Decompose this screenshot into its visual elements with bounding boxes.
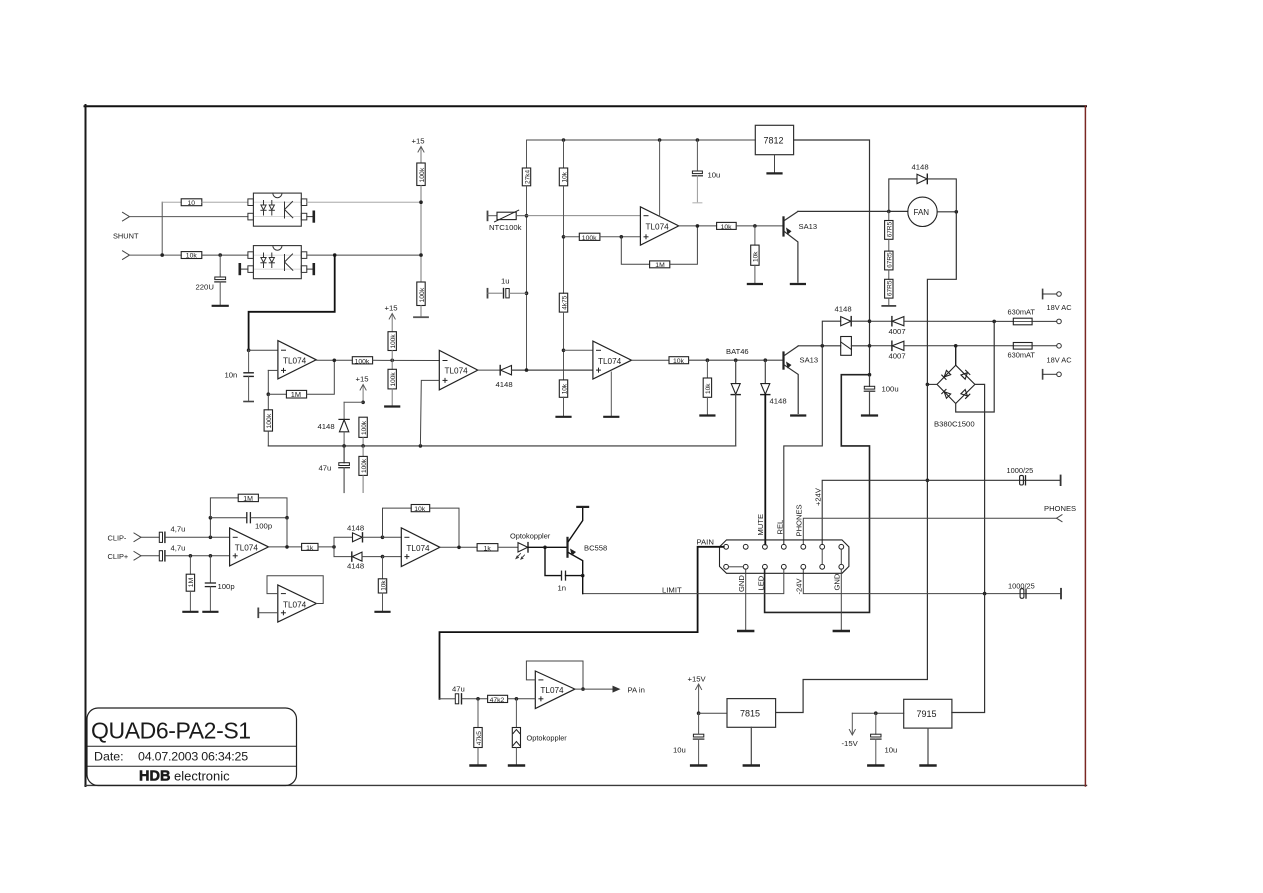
diode 4148 (mute)	[761, 360, 787, 405]
wire input2 to resistor 10k	[130, 254, 182, 256]
terminator opto2 lower left	[240, 264, 248, 274]
svg-text:4k75: 4k75	[561, 295, 568, 309]
wire 100k to U3b	[373, 359, 440, 361]
node junction dot	[476, 697, 480, 701]
wire bridge left to rail	[927, 383, 937, 385]
node junction dot	[209, 516, 213, 520]
svg-text:4148: 4148	[347, 562, 364, 571]
op-amp U4 TL074	[593, 341, 632, 379]
wire to end tick	[420, 306, 422, 318]
node junction dot	[562, 235, 566, 239]
ground bar pin2	[738, 630, 753, 632]
diode 4148 (upper, anode left)	[334, 524, 383, 547]
node junction dot	[562, 138, 566, 142]
wire to 1M	[268, 393, 286, 395]
terminator opto2 lower right	[307, 264, 314, 274]
svg-text:NTC100k: NTC100k	[489, 223, 522, 232]
wire to U3 plus	[600, 236, 641, 238]
capacitor 1000/25 (-24V)	[1008, 582, 1061, 599]
svg-text:1M: 1M	[291, 390, 301, 399]
capacitor 100p (CLIP+ bias)	[205, 556, 234, 612]
terminator U6 plus input	[258, 608, 278, 617]
svg-text:TL074: TL074	[235, 544, 259, 553]
capacitor 4,7u (CLIP+)	[159, 543, 229, 561]
wire Q2 collector to relay	[798, 345, 841, 347]
svg-text:100k: 100k	[582, 235, 597, 242]
ground bar 7815	[744, 764, 759, 766]
resistor 1M (U5 feedback)	[210, 494, 287, 518]
resistor 100k (U2 fb lower)	[264, 394, 273, 446]
node junction dot 220U	[218, 253, 222, 257]
node junction dot	[868, 344, 872, 348]
svg-text:10k: 10k	[705, 383, 712, 394]
node junction dot	[581, 687, 585, 691]
svg-text:18V AC: 18V AC	[1047, 303, 1073, 312]
regulator 7812	[755, 125, 793, 173]
connector pin circles top row	[724, 544, 844, 549]
svg-text:TL074: TL074	[283, 357, 307, 366]
power +15 arrow (x=421)	[412, 137, 425, 164]
wire U3b plus input from long wire	[420, 380, 439, 446]
wire 4007 line 1 left	[870, 320, 892, 322]
wire U3 output	[679, 225, 717, 227]
node junction dot	[658, 138, 662, 142]
svg-text:+15: +15	[356, 375, 369, 384]
wire x=526.5 column	[526, 186, 528, 370]
optocoupler OK2	[248, 246, 307, 279]
transistor Q1 SA13	[784, 211, 818, 282]
node junction dot	[620, 235, 624, 239]
svg-text:BC558: BC558	[584, 544, 607, 553]
wire 7915 output up rail	[952, 594, 985, 713]
resistor 10	[181, 199, 202, 207]
svg-text:10k: 10k	[186, 253, 198, 260]
svg-text:4148: 4148	[770, 397, 787, 406]
node junction dot	[332, 545, 336, 549]
title block	[87, 708, 297, 786]
resistor 10k (U3 out)	[717, 222, 737, 230]
wire long horizontal y=445.9	[268, 445, 735, 447]
wire NTC node to U3 minus	[527, 215, 641, 217]
svg-text:100k: 100k	[361, 420, 368, 435]
svg-text:10k: 10k	[414, 506, 426, 513]
wire U7 output	[440, 546, 477, 548]
terminator opto1 lower right	[307, 212, 314, 222]
node junction dot	[874, 711, 878, 715]
svg-text:QUAD6-PA2-S1: QUAD6-PA2-S1	[91, 718, 251, 744]
resistor 1k (U5 out)	[302, 543, 318, 551]
svg-text:1000/25: 1000/25	[1007, 466, 1034, 475]
wire U3 feedback	[621, 237, 649, 264]
svg-text:10k: 10k	[753, 251, 760, 262]
svg-text:1n: 1n	[558, 584, 567, 593]
wire U6 feedback loop	[267, 576, 323, 604]
connector pin circles bottom row	[724, 564, 844, 569]
resistor 1M feedback U2	[286, 390, 306, 399]
svg-text:1M: 1M	[188, 577, 195, 587]
terminal 18V AC (1)	[1043, 289, 1073, 312]
optocoupler OK1	[248, 193, 307, 226]
svg-text:4,7u: 4,7u	[171, 543, 186, 552]
resistor 27k4	[522, 168, 531, 186]
wire to U7 inputs	[383, 536, 402, 538]
wire vertical input branch	[161, 202, 163, 255]
capacitor 4,7u (CLIP-)	[159, 525, 229, 543]
capacitor 10u (7915 input)	[871, 713, 898, 765]
resistor 1k (to optocoupler LED)	[477, 544, 498, 553]
transistor Q2 SA13	[784, 346, 819, 413]
svg-text:100u: 100u	[882, 385, 899, 394]
wire +12 rail	[527, 139, 756, 141]
wire 47k2 to U8 plus	[508, 698, 536, 700]
ground bar 10u	[868, 764, 883, 766]
op-amp U8 TL074	[535, 671, 575, 709]
svg-text:CLIP-: CLIP-	[108, 534, 127, 543]
connector J1	[720, 540, 849, 573]
svg-text:10n: 10n	[225, 371, 238, 380]
svg-text:1M: 1M	[243, 496, 253, 503]
wire to Q1 base	[736, 225, 783, 227]
wire feedback vertical	[267, 370, 269, 394]
node junction dot NTC	[525, 214, 529, 218]
capacitor 10u (rail)	[692, 140, 720, 203]
output arrow PHONES	[1057, 515, 1063, 522]
svg-text:BAT46: BAT46	[726, 347, 749, 356]
node junction dot	[381, 555, 385, 559]
svg-text:630mAT: 630mAT	[1008, 308, 1036, 317]
resistor 67R5 (3)	[885, 270, 894, 306]
LED Optokoppler (emitter diode)	[510, 532, 551, 560]
svg-text:47k2: 47k2	[490, 697, 505, 704]
svg-text:100p: 100p	[255, 522, 272, 531]
ground 220U	[213, 305, 228, 307]
resistor 10k (below U4 minus)	[559, 380, 568, 417]
resistor 67R5 (2)	[885, 239, 894, 270]
thermistor NTC100k	[488, 210, 527, 232]
svg-text:7915: 7915	[917, 709, 937, 719]
motor FAN	[908, 197, 937, 226]
resistor 1M (U3 feedback)	[650, 261, 670, 269]
wire CLIP- input	[141, 536, 159, 538]
node junction dot	[381, 536, 385, 540]
resistor 10k (U4 out)	[669, 357, 689, 365]
wire 100k column	[420, 186, 422, 283]
svg-text:LIMIT: LIMIT	[662, 586, 682, 595]
node junction dot	[419, 444, 423, 448]
node junction dot	[419, 200, 423, 204]
resistor 10k	[181, 252, 202, 260]
capacitor 1n	[545, 547, 583, 592]
power +15 arrow (x=363)	[356, 375, 369, 403]
svg-text:1u: 1u	[501, 277, 510, 286]
optocoupler (photoresistor side)	[512, 699, 567, 766]
svg-text:4007: 4007	[889, 352, 906, 361]
wire opto2 out	[307, 254, 421, 256]
wire to 7915	[852, 712, 903, 714]
resistor 100k (x=363 below wire)	[359, 446, 368, 493]
wire 4007-2 to fuse	[904, 345, 1013, 347]
node junction dot	[333, 359, 337, 363]
resistor 4k75	[559, 293, 568, 312]
diode 4007 (1)	[889, 317, 906, 336]
svg-text:TL074: TL074	[406, 544, 430, 553]
resistor 10k (Q1 base)	[751, 226, 760, 284]
svg-text:10u: 10u	[673, 746, 686, 755]
svg-text:67R5: 67R5	[887, 221, 894, 237]
svg-text:TL074: TL074	[646, 223, 670, 232]
capacitor 10n	[225, 350, 254, 401]
node junction dot	[697, 711, 701, 715]
wire 100k row	[564, 236, 580, 238]
wire diode to U4 plus	[512, 369, 593, 371]
resistor 100k (U3 plus)	[579, 233, 600, 242]
wire U2 plus input	[268, 369, 278, 371]
regulator 7815	[727, 699, 776, 766]
terminator bar	[414, 316, 428, 318]
capacitor 47u (U8 input)	[440, 685, 488, 704]
wire PHONES line	[803, 518, 1056, 544]
svg-text:10k: 10k	[561, 383, 568, 394]
svg-text:100k: 100k	[390, 334, 397, 349]
wire FAN right	[937, 211, 956, 213]
wire to ground	[391, 389, 393, 406]
terminal 18V AC (2)	[1043, 356, 1073, 379]
wire U8 feedback loop	[526, 661, 583, 689]
wire U4 minus input	[564, 349, 593, 351]
svg-text:100k: 100k	[419, 287, 426, 302]
wire pin1-pin2 bottom link	[729, 566, 744, 568]
svg-text:220U: 220U	[196, 283, 214, 292]
svg-text:Date:: Date:	[94, 750, 124, 764]
ground bar 47k5	[471, 764, 486, 766]
svg-text:47u: 47u	[452, 685, 465, 694]
wire pin7 column link	[840, 549, 842, 564]
node junction dot	[887, 210, 891, 214]
node junction dot	[706, 358, 710, 362]
node junction dot	[992, 320, 996, 324]
node junction dot	[457, 546, 461, 550]
diode 4148 (vertical, left cluster)	[318, 402, 350, 446]
resistor 100k (x=363 above wire)	[359, 417, 368, 446]
svg-text:4007: 4007	[889, 327, 906, 336]
resistor 47k5	[474, 699, 483, 766]
wire pin6 column link	[821, 549, 823, 564]
wire 4007-1 to fuse	[904, 320, 1013, 322]
resistor 10k (U7 feedback)	[383, 505, 460, 548]
svg-text:PAIN: PAIN	[697, 538, 714, 547]
node junction dot	[983, 592, 987, 596]
wire U4 ground stub	[610, 372, 612, 417]
node junction dot	[581, 574, 585, 578]
svg-text:GND: GND	[833, 573, 842, 590]
border frame right	[1084, 106, 1086, 786]
node junction dot	[734, 358, 738, 362]
svg-text:+24V: +24V	[814, 487, 823, 506]
svg-text:4148: 4148	[347, 524, 364, 533]
node junction dot	[926, 383, 930, 387]
wire LIMIT line	[583, 569, 784, 593]
wire 1k to LED	[498, 546, 518, 548]
ground bar Q1 emitter	[791, 283, 805, 285]
power +15 arrow (x=392)	[385, 304, 398, 332]
wire x=563.5 column	[563, 186, 565, 293]
svg-text:+15: +15	[412, 137, 425, 146]
svg-text:10u: 10u	[885, 746, 898, 755]
svg-text:67R5: 67R5	[887, 280, 894, 296]
svg-text:GND: GND	[737, 575, 746, 592]
svg-text:+15V: +15V	[688, 675, 707, 684]
resistor 10k (U7 plus bias)	[378, 557, 387, 612]
svg-text:-15V: -15V	[842, 739, 859, 748]
wire Q1 collector to FAN	[798, 210, 908, 212]
svg-text:100p: 100p	[218, 582, 235, 591]
op-amp U3b TL074	[439, 350, 478, 390]
svg-text:10: 10	[188, 200, 196, 207]
resistor 100k (top of x=421 column)	[417, 163, 426, 186]
node junction dot	[821, 344, 825, 348]
node junction dot	[390, 359, 394, 363]
wire relay node down	[869, 346, 871, 375]
wire U5 fb vertical	[209, 518, 211, 538]
resistor 67R5 (1)	[885, 211, 894, 239]
capacitor 220U	[196, 255, 226, 305]
wire x=526.5 column top	[526, 140, 528, 168]
node junction dot	[285, 516, 289, 520]
wire to U2 minus	[249, 349, 278, 351]
svg-text:27k4: 27k4	[524, 170, 531, 184]
diode 4148 (relay bypass)	[822, 305, 869, 346]
transistor Q3 BC558	[568, 507, 608, 576]
svg-text:4148: 4148	[318, 422, 335, 431]
node junction dot	[955, 210, 959, 214]
ground bar	[376, 611, 390, 613]
node junction dot	[361, 444, 365, 448]
svg-text:4148: 4148	[496, 380, 513, 389]
svg-text:TL074: TL074	[445, 367, 469, 376]
ground bar	[748, 283, 762, 285]
node junction dot	[285, 545, 289, 549]
node junction dot	[696, 224, 700, 228]
svg-text:100k: 100k	[266, 413, 273, 428]
svg-text:100k: 100k	[419, 167, 426, 182]
wire resistor 10 to opto1	[202, 201, 248, 203]
diode 4007 (2)	[889, 341, 906, 360]
svg-text:4,7u: 4,7u	[171, 525, 186, 534]
node junction dot	[926, 479, 930, 483]
ground bar	[203, 611, 217, 613]
svg-text:+15: +15	[385, 304, 398, 313]
input terminal arrow 1	[123, 212, 130, 221]
node junction dot U2 minus input	[247, 348, 251, 352]
wire +24V line	[822, 480, 1059, 544]
wire PAIN to U8 input	[440, 547, 724, 699]
wire link to 4148	[344, 401, 363, 403]
fuse 630mAT (1)	[1008, 308, 1062, 325]
relay K1	[841, 337, 870, 356]
input terminal arrow CLIP+	[134, 552, 141, 561]
svg-text:electronic: electronic	[174, 768, 230, 783]
diode BAT46	[726, 347, 749, 446]
op-amp U7 TL074	[401, 528, 440, 567]
svg-text:100k: 100k	[355, 358, 370, 365]
wire pin2 to ground	[745, 569, 747, 631]
input terminal arrow CLIP-	[134, 533, 141, 542]
node junction dot 1u	[525, 291, 529, 295]
wire to 7815	[699, 712, 727, 714]
wire to U7 plus	[383, 556, 402, 558]
capacitor 100u	[864, 375, 898, 416]
svg-text:1k: 1k	[306, 545, 314, 552]
resistor 10k (top column)	[559, 168, 568, 186]
svg-text:67R5: 67R5	[887, 252, 894, 268]
node junction dot	[696, 138, 700, 142]
wire REL path	[784, 346, 823, 545]
svg-text:47u: 47u	[319, 464, 332, 473]
node junction dot	[209, 536, 213, 540]
wire input1 to opto1	[130, 216, 249, 218]
node junction dot	[868, 373, 872, 377]
node junction dot	[954, 344, 958, 348]
resistor 47k2	[488, 695, 508, 704]
capacitor 10u (7815 input)	[673, 713, 704, 765]
wire bridge bottom output	[956, 321, 995, 412]
ground bar	[385, 405, 399, 407]
node junction dot	[209, 554, 213, 558]
diode 4148 (lower, cathode left)	[334, 547, 383, 571]
wire U8 output	[575, 688, 614, 690]
node junction dot	[160, 253, 164, 257]
wire U3b output	[478, 369, 500, 371]
wire 7812 output to right rail	[794, 140, 870, 346]
wire 1k to diode pair	[318, 546, 334, 548]
wire mute line down to connector	[764, 395, 766, 545]
svg-text:630mAT: 630mAT	[1008, 351, 1036, 360]
svg-text:10k: 10k	[380, 580, 387, 591]
border frame top	[85, 105, 1087, 107]
svg-text:47k5: 47k5	[476, 731, 483, 745]
wire resistor 10k to opto2	[202, 254, 248, 256]
svg-text:PA in: PA in	[628, 686, 645, 695]
node junction dot	[868, 319, 872, 323]
svg-text:PHONES: PHONES	[1044, 504, 1076, 513]
ground bar optocoupler	[509, 764, 524, 766]
svg-text:MUTE: MUTE	[756, 514, 765, 536]
svg-text:10k: 10k	[721, 224, 733, 231]
svg-text:TL074: TL074	[283, 600, 307, 609]
svg-text:REL: REL	[776, 520, 785, 535]
svg-text:B380C1500: B380C1500	[934, 420, 975, 429]
op-amp U3 TL074	[640, 207, 678, 245]
resistor 10k (shunt at U4 out)	[703, 360, 712, 415]
ground bar 10u	[691, 764, 706, 766]
svg-text:TL074: TL074	[598, 357, 622, 366]
diode 4148 (FAN bypass)	[889, 163, 957, 212]
svg-text:PHONES: PHONES	[795, 504, 804, 536]
power +15V arrow	[688, 675, 707, 714]
ground bar	[700, 414, 714, 416]
wire 4k75 down to U4 minus node	[563, 312, 565, 380]
wire Q3 emitter to LIMIT	[582, 576, 584, 594]
svg-text:10u: 10u	[708, 171, 721, 180]
node junction dot	[764, 358, 768, 362]
svg-text:7815: 7815	[740, 709, 760, 719]
resistor 100k (x=392 upper)	[388, 332, 397, 351]
svg-text:10k: 10k	[673, 358, 685, 365]
wire U4 output	[632, 359, 670, 361]
wire 1M to output	[670, 226, 698, 264]
node junction dot	[189, 554, 193, 558]
wire FAN right down to x=927 rail	[927, 212, 956, 385]
